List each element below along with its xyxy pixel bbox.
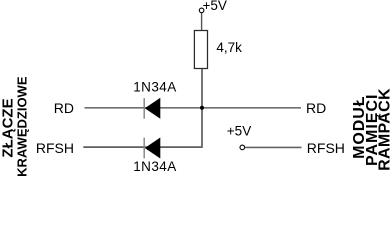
- svg-text:1N34A: 1N34A: [133, 80, 177, 95]
- wire RD horizontal: [85, 107, 302, 109]
- svg-text:+5V: +5V: [227, 123, 251, 138]
- svg-text:1N34A: 1N34A: [133, 159, 177, 174]
- wire RFSH left horizontal: [83, 146, 202, 148]
- svg-text:RFSH: RFSH: [307, 140, 345, 156]
- svg-text:RD: RD: [306, 100, 326, 116]
- wire vertical from resistor bottom through RD junction to RFSH corner: [201, 69, 203, 148]
- svg-text:RFSH: RFSH: [36, 140, 74, 156]
- diode D2 cathode bar: [143, 138, 145, 159]
- svg-text:RD: RD: [54, 100, 74, 116]
- label PAMIĘCI (right module label line 2, rotated): [364, 94, 381, 166]
- svg-text:4,7k: 4,7k: [216, 40, 242, 55]
- wire RFSH right (from +5V terminal to module): [245, 146, 302, 148]
- svg-text:KRAWĘDZIOWE: KRAWĘDZIOWE: [14, 76, 29, 177]
- svg-text:RAMPACK: RAMPACK: [377, 88, 392, 171]
- resistor R1 body: [194, 31, 207, 69]
- wire top +5V stub to resistor: [201, 13, 203, 31]
- label KRAWĘDZIOWE (left edge-connector label line 2, rotated): [14, 76, 29, 177]
- diode D1 triangle: [145, 98, 161, 119]
- diode D1 cathode bar: [143, 98, 145, 119]
- label MODUŁ (right module label line 1, rotated): [351, 95, 368, 158]
- label ZŁĄCZE (left edge-connector label line 1, rotated): [0, 98, 16, 157]
- diode D2 triangle: [145, 138, 161, 159]
- junction dot RD/pullup: [200, 106, 204, 110]
- terminal +5V (top, open circle): [199, 8, 204, 13]
- terminal +5V (right, open circle): [240, 145, 245, 150]
- label RAMPACK (right module label line 3, rotated): [377, 88, 392, 171]
- svg-text:+5V: +5V: [203, 0, 227, 13]
